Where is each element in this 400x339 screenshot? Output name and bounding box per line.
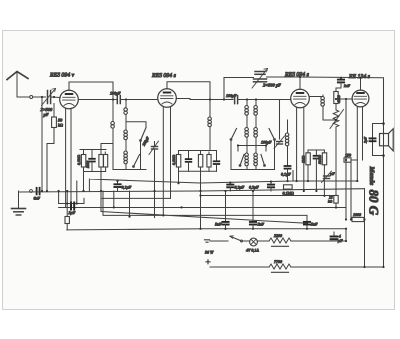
wire cathode feed xyxy=(351,162,352,219)
trimmer capacitor 100pF (padder) xyxy=(149,141,159,218)
svg-text:2×500 pF: 2×500 pF xyxy=(263,83,281,88)
svg-text:0,1MΩ: 0,1MΩ xyxy=(283,191,294,196)
wire resistor to ground bus xyxy=(47,128,54,192)
svg-text:0,1µF: 0,1µF xyxy=(281,172,291,177)
tube V3 RES094 xyxy=(291,89,310,108)
bandfilter coils middle pair xyxy=(245,128,258,146)
svg-text:2µF: 2µF xyxy=(364,136,368,143)
resistor 20k (stage2) xyxy=(207,152,211,171)
resistor 4000 (grid feed) xyxy=(334,92,338,104)
resistor 150 (cathode) xyxy=(344,158,357,162)
svg-text:2µF: 2µF xyxy=(69,210,76,215)
wire L1 to RC block xyxy=(101,144,113,150)
svg-text:5nF: 5nF xyxy=(258,222,265,227)
wire V3 filament legs xyxy=(296,108,298,182)
wire V3 grid drop xyxy=(280,100,291,140)
svg-text:1MΩ: 1MΩ xyxy=(302,155,306,163)
svg-text:0,2µF: 0,2µF xyxy=(235,185,245,190)
svg-text:50000: 50000 xyxy=(318,155,322,164)
resistor 50k (stage1 screen) xyxy=(99,150,103,192)
switch S4 (bandfilter right) xyxy=(269,129,276,170)
capacitor 100pF (coupling) xyxy=(117,96,120,104)
svg-text:5000: 5000 xyxy=(86,161,90,168)
RC group stage1 top rail xyxy=(80,149,106,151)
trimmer capacitor 2x500pF (antenna) xyxy=(42,89,56,106)
svg-text:5nF: 5nF xyxy=(311,222,318,227)
bus bias 1 xyxy=(59,207,346,209)
wire V1 plate to corner xyxy=(78,99,113,101)
capacitor 0.2uF (right) xyxy=(268,182,274,191)
capacitor 6nF (antenna series) xyxy=(37,188,40,195)
speaker frame wires xyxy=(373,124,384,156)
RC group stage2 bottom rail xyxy=(179,170,217,172)
capacitor 2uF (speaker) xyxy=(370,138,376,141)
resistor (bias chain) xyxy=(65,204,69,230)
bus ground long xyxy=(19,189,365,192)
resistor 0.1M (grid V4) xyxy=(284,185,293,189)
coil L7 (AF choke) xyxy=(321,95,336,120)
wire gang2 to grid bus xyxy=(224,78,254,100)
svg-text:0,1MΩ: 0,1MΩ xyxy=(172,155,176,165)
switch S1 (band) xyxy=(140,128,147,170)
bus filament long xyxy=(67,229,346,230)
wire trimmer to tube V1 grid xyxy=(51,96,61,99)
svg-text:2200: 2200 xyxy=(274,233,282,238)
power terminal minus xyxy=(205,240,210,242)
coil L2 (detector coil) xyxy=(124,100,127,152)
wire V2 anode top bus xyxy=(167,82,210,117)
switch S3 (bandfilter left) xyxy=(230,129,237,170)
svg-text:4V 0,1A: 4V 0,1A xyxy=(246,248,259,253)
wire supply riser mid xyxy=(345,99,347,241)
RC group stage1 bottom rail xyxy=(84,171,106,173)
trimmer capacitor (AF feedback) xyxy=(322,171,332,183)
resistor 2200 (barretter) xyxy=(269,238,346,246)
capacitor (stage2 small) xyxy=(214,151,220,172)
wire riser x129 xyxy=(129,191,131,217)
resistor 30k (stage1) xyxy=(104,152,108,172)
wire V3 top riser xyxy=(299,77,301,89)
wire V1 filament legs xyxy=(65,108,67,207)
coil L3 (wave band coil) xyxy=(124,151,127,170)
RC group stage3 xyxy=(308,149,324,151)
wire V2 filament legs xyxy=(162,107,164,215)
bandfilter bottom rail xyxy=(231,169,275,171)
capacitor 5000 (stage2) xyxy=(186,151,192,172)
node ground tap xyxy=(30,190,33,193)
svg-text:RES 094 v: RES 094 v xyxy=(49,73,75,79)
svg-text:0,1µF: 0,1µF xyxy=(122,185,132,190)
tube V2 RES094 xyxy=(158,89,177,108)
electrolytic 2uF (bias) xyxy=(59,181,84,210)
ground xyxy=(12,191,26,215)
svg-text:7700: 7700 xyxy=(274,259,282,264)
resistor 50k (grid leak) xyxy=(52,117,57,128)
svg-text:1nF: 1nF xyxy=(344,84,351,88)
tube V4 RE134 xyxy=(352,90,369,107)
resistor 1000 (supply) xyxy=(352,217,365,221)
bus anode supply xyxy=(89,171,357,191)
tone capacitor chain coil xyxy=(285,120,289,166)
resistor 0.1M (stage1) xyxy=(81,150,85,191)
capacitor 0.1uF (decoupling left) xyxy=(114,181,120,191)
wire V2 plate to filter xyxy=(176,99,233,100)
resistor 50k (stage2) xyxy=(198,151,202,229)
svg-text:µF: µF xyxy=(338,238,343,243)
capacitor (stage3) xyxy=(314,150,320,191)
svg-text:kΩ: kΩ xyxy=(328,200,333,204)
coil L4 (IF primary) xyxy=(208,117,212,151)
speaker xyxy=(380,129,394,151)
wire trimmer bottom to resistor xyxy=(53,104,55,118)
svg-text:80 G: 80 G xyxy=(367,190,382,216)
RC group stage2 top rail xyxy=(179,150,217,152)
bandfilter coils L5 L6 (upper pair) xyxy=(245,100,258,128)
capacitor 5nF (het 2) xyxy=(250,191,256,229)
capacitor 5nF (het 3) xyxy=(304,215,310,228)
bus screen supply xyxy=(101,172,334,212)
capacitor 5nF (het 1) xyxy=(222,191,228,229)
wire pot to lower bus xyxy=(335,128,337,196)
wire to trimmer xyxy=(33,96,46,98)
tube V1 RES094 xyxy=(60,90,79,109)
switch S6 (bandfilter lower right) xyxy=(261,155,266,167)
node antenna terminal xyxy=(30,96,33,99)
capacitor 1nF (plate bypass) xyxy=(336,78,344,92)
resistor 0.1M (stage2) xyxy=(176,151,180,184)
wire supply riser right xyxy=(364,189,366,267)
wire gang2 to top bus right xyxy=(267,76,301,78)
mains switch xyxy=(210,236,249,242)
potentiometer (volume, zigzag) xyxy=(330,104,344,129)
dial lamp 4V 0.1A xyxy=(250,238,269,246)
svg-text:RES 094 s: RES 094 s xyxy=(151,73,177,79)
switch S5 (bandfilter lower left) xyxy=(239,155,244,167)
wire V4 top riser xyxy=(360,78,362,90)
top bus to output stage xyxy=(300,77,384,267)
svg-text:pF: pF xyxy=(43,112,49,117)
power terminal plus xyxy=(206,260,210,264)
svg-text:1000: 1000 xyxy=(353,212,361,217)
trimmer capacitor 2x500pF (tuning gang 2) xyxy=(252,69,268,89)
wire V4 grid xyxy=(336,98,352,100)
bandfilter mid tap rail xyxy=(238,146,266,152)
resistor 7700 (dropper) xyxy=(210,264,384,272)
svg-text:100pF: 100pF xyxy=(261,140,272,145)
coil L1 (anode choke) xyxy=(111,100,114,144)
wire band block bottom xyxy=(113,144,146,170)
svg-text:5nF: 5nF xyxy=(215,222,222,227)
svg-text:100pF: 100pF xyxy=(226,93,237,98)
resistor 12k (feed) xyxy=(334,196,338,208)
svg-text:100pF: 100pF xyxy=(110,91,121,96)
wire antenna to input xyxy=(17,96,30,98)
svg-text:kΩ: kΩ xyxy=(58,123,63,128)
capacitor 100pF (grid V3) xyxy=(235,96,280,104)
wire coil tap to switch S1 xyxy=(126,122,146,127)
wire V4 filament legs xyxy=(356,107,358,181)
svg-text:µF: µF xyxy=(330,172,335,176)
svg-text:0,2µF: 0,2µF xyxy=(249,185,259,190)
resistor 50k (stage3 b) xyxy=(322,150,326,196)
antenna xyxy=(7,72,28,98)
wire riser x113 xyxy=(113,191,115,207)
capacitor 5000 (stage1) xyxy=(89,150,95,172)
bus bias 2 xyxy=(101,191,307,223)
svg-text:RE 134 s: RE 134 s xyxy=(348,74,371,80)
bandfilter coils lower pair xyxy=(245,146,258,170)
switch S2 (band) xyxy=(133,155,140,168)
resistor 50k (stage3) xyxy=(306,150,310,181)
svg-text:Mende: Mende xyxy=(368,166,375,186)
trimmer capacitor 100pF (V3 grid) xyxy=(274,136,285,149)
wire grid line stage2 xyxy=(113,99,158,101)
wire V3 plate right xyxy=(309,96,323,98)
svg-text:36 W: 36 W xyxy=(205,250,214,255)
wire V1 anode top xyxy=(69,82,113,100)
capacitor 0.1uF (tone) xyxy=(285,166,291,181)
svg-text:6nF: 6nF xyxy=(34,196,41,201)
svg-text:0,1MΩ: 0,1MΩ xyxy=(77,155,81,165)
capacitor 4uF (supply) xyxy=(331,232,338,239)
capacitor 0.2uF (left) xyxy=(227,183,233,191)
wire left drop from input xyxy=(41,97,43,191)
